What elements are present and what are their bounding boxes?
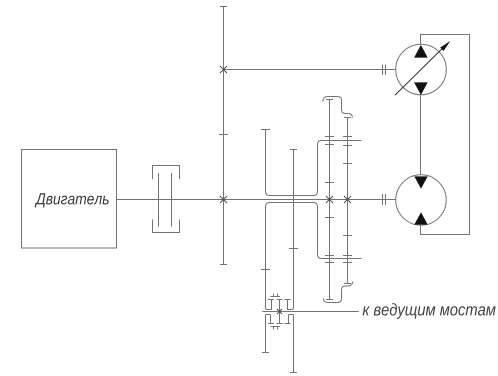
- wire: main horizontal shaft y=199.2 engine to motor: [117, 199, 397, 201]
- vertical shaft S1 x=223.2: [223, 7, 225, 265]
- node cross output: [277, 309, 282, 314]
- cluster centre bottom tick: [277, 323, 283, 325]
- engine box (Двигатель): [22, 150, 117, 249]
- lower-right dog hook + shaft S3 tail to bottom: [289, 315, 294, 374]
- lower bracket path + shaft S2 lower descent + upper-left dog hook: [266, 203, 362, 310]
- shaft S2 gear tick y=269: [261, 269, 270, 271]
- motor triangle bottom (filled, points up): [414, 212, 427, 224]
- cluster tiny hooks below: [271, 327, 281, 330]
- cluster centre shaft x=279.2: [279, 300, 281, 324]
- shaft A top end tick: [326, 99, 333, 101]
- cluster centre top tick: [277, 299, 283, 301]
- wire: output line y=311.3: [262, 311, 359, 313]
- node cross shaft A: [326, 196, 333, 203]
- shaft S1 top end tick: [220, 6, 227, 8]
- output label text: [363, 303, 496, 319]
- upper-left dog tick: [268, 299, 274, 301]
- coupling M1 inner discs: [158, 173, 160, 227]
- shaft A gear ticks: [325, 136, 334, 138]
- bottom shift hook under shafts A,B: [323, 281, 353, 302]
- pump variable-displacement arrow: [395, 44, 447, 95]
- shaft B gear ticks: [343, 136, 352, 138]
- shaft S2 bottom end tick: [262, 352, 269, 354]
- pump arrow head (filled): [440, 41, 450, 51]
- coupling M1 top bracket: [153, 166, 180, 180]
- engine label text: [35, 193, 109, 207]
- shaft S3 gear tick y=248.5: [289, 248, 298, 250]
- coupling ticks on main shaft to motor: [382, 194, 384, 205]
- lower-right dog tick: [285, 323, 291, 325]
- vertical shaft S3 x=293.4 upper part + upper-right dog hook: [288, 150, 294, 310]
- hydraulic pump circle U1: [396, 44, 447, 95]
- shaft S2 top end tick: [261, 129, 270, 131]
- hydraulic loop line pump top to right side down to motor bottom: [421, 35, 470, 235]
- gear shaft B x=347.5: [347, 118, 349, 284]
- shaft S3 bottom end tick: [290, 372, 297, 374]
- shaft S1 gear tick y=134: [219, 134, 228, 136]
- shaft B bottom end tick: [344, 283, 351, 285]
- wire: upper horizontal shaft y=69.6 to pump: [224, 69, 397, 71]
- lower-left dog hook + shaft S2 tail to bottom: [266, 315, 271, 353]
- coupling M1 bottom bracket: [153, 220, 180, 233]
- upper-right dog tick: [285, 299, 291, 301]
- cluster tiny hooks above: [271, 294, 281, 297]
- shaft B top end tick: [344, 117, 351, 119]
- hydraulic motor circle U2: [396, 175, 446, 225]
- node cross S1 upper: [220, 66, 227, 73]
- node cross S1 lower: [220, 196, 227, 203]
- node cross shaft B: [344, 196, 351, 203]
- pump triangle bottom (filled): [414, 82, 428, 95]
- upper bracket path (shaft S2 top into frame): [266, 129, 362, 196]
- shaft S3 top end tick: [290, 149, 297, 151]
- top shift hook over shafts A,B: [323, 97, 353, 118]
- shaft A bottom end tick: [326, 299, 333, 301]
- hydraulic line pump bottom to motor top: [420, 95, 422, 175]
- shaft S1 bottom end tick: [220, 264, 227, 266]
- motor triangle top (filled, points down): [414, 176, 427, 188]
- pump triangle top (filled): [414, 45, 428, 58]
- gear shaft A x=329.4: [329, 100, 331, 300]
- coupling ticks on upper shaft to pump: [382, 65, 384, 76]
- lower-left dog tick: [268, 323, 274, 325]
